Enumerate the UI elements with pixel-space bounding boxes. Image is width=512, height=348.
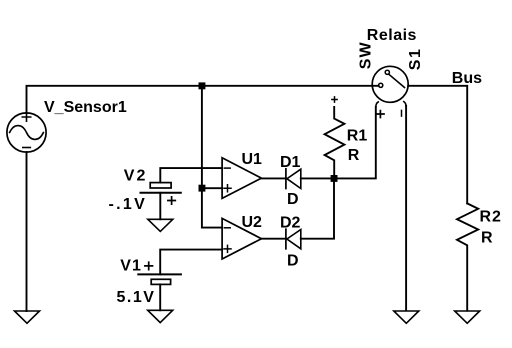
wire top rail from V_Sensor1 to switch [27,86,379,113]
svg-text:V2: V2 [124,167,148,184]
relay coil polarity + [377,111,384,118]
battery V2 [150,183,171,188]
plus mark V1 [145,262,153,270]
diode D1 [285,169,287,189]
svg-text:D: D [287,191,299,208]
svg-text:Bus: Bus [452,70,482,87]
svg-text:-.1V: -.1V [109,196,148,213]
svg-text:D: D [287,253,299,270]
op-amp U1 [222,158,261,199]
node junction to U1 non-inverting input [199,185,206,192]
svg-text:U2: U2 [242,214,263,231]
ground (R2) [455,311,480,323]
wire U2 output to D2 [261,238,286,240]
svg-text:R: R [481,230,493,247]
diode D2 [285,229,287,249]
svg-text:U1: U1 [242,151,263,168]
ground (V_Sensor1) [15,311,40,323]
relay coil leads [376,102,378,107]
node junction at top rail [199,82,206,89]
wire V_Sensor1 to ground [26,152,28,311]
svg-text:D1: D1 [280,154,301,171]
wire junction to U1 + input [202,187,222,189]
svg-text:5.1V: 5.1V [117,289,156,306]
svg-text:R2: R2 [480,208,502,225]
wire V2 top to U1 - input [160,168,222,183]
op-amp U2 [222,218,261,259]
wire V2 to ground [159,193,161,220]
switch lever [389,74,405,87]
wire switch to Bus corner and down to R2 [408,86,467,204]
ground (relay coil) [394,311,419,323]
svg-text:D2: D2 [280,214,301,231]
plus mark R1 [332,97,337,102]
wire junction to relay coil + [338,107,376,178]
svg-text:V_Sensor1: V_Sensor1 [44,99,127,116]
wire D1 to junction [301,177,334,179]
wire V1 top to U2 + input [160,250,222,275]
wire D2 up to junction [301,178,334,238]
svg-text:S1: S1 [407,48,424,71]
wire V1 to ground [159,284,161,310]
node junction D1/R1/relay [331,175,338,182]
ground (V1) [148,310,173,322]
wire main vertical to U2 inverting input [202,86,222,228]
battery V1 [138,273,181,275]
svg-text:R1: R1 [347,127,368,144]
svg-text:R: R [348,147,360,164]
svg-text:SW: SW [357,41,374,69]
switch S1 body [372,66,408,102]
ground (V2) [148,219,173,231]
resistor R1 [325,107,345,175]
svg-text:V1: V1 [120,258,142,275]
voltage source V_Sensor1 [7,113,46,152]
resistor R2 [457,203,478,310]
relay coil polarity - (rotated) [401,110,403,116]
wire U1 output to D1 [261,177,286,179]
